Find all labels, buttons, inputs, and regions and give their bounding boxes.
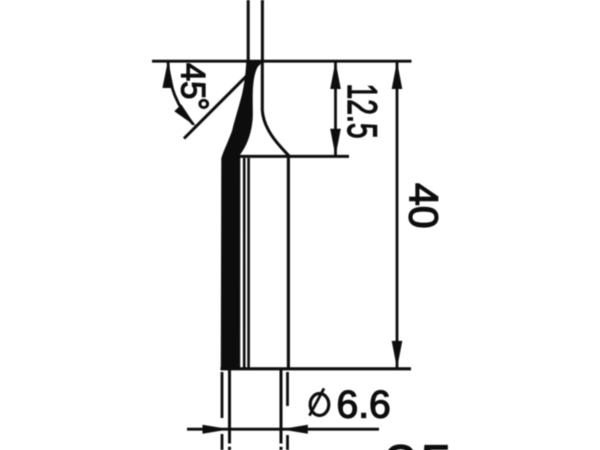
svg-text:6.6: 6.6	[337, 384, 391, 427]
svg-text:12.5: 12.5	[339, 84, 386, 139]
svg-text:45°: 45°	[173, 63, 214, 110]
svg-text:40: 40	[401, 183, 447, 229]
